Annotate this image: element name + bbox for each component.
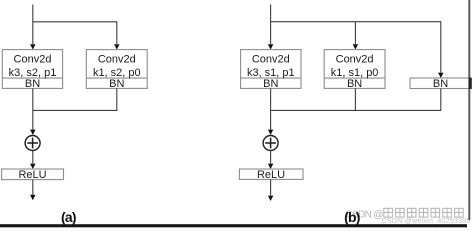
wire input stem (b) [270,5,272,45]
wire output (a) [32,180,34,195]
block BN shortcut (b-right) [410,78,470,89]
block ReLU (a) [2,169,64,180]
svg-text:ReLU: ReLU [257,169,285,181]
wire adder to ReLU (a) [32,151,34,164]
block Conv2d k1,s1,p0 + BN (b-middle) [324,50,385,89]
arrowhead into adder (b) [268,130,273,135]
separator line BN (a-right) [86,77,147,79]
arrowhead output (b) [268,196,273,201]
arrowhead into Conv2d k3,s1,p1 [268,44,273,49]
wire branch top (b) [271,22,441,73]
separator line BN (a-left) [2,77,62,79]
arrowhead into Conv2d k1,s2,p0 [114,44,119,49]
wire left column down to adder (a) [32,88,34,129]
block Conv2d k1,s2,p0 + BN (a-right) [86,50,147,89]
svg-text:ReLU: ReLU [18,169,46,181]
arrowhead into Conv2d k1,s1,p0 [353,44,358,49]
wire BN shortcut down (b) [440,89,442,111]
wire input stem (a) [32,5,34,45]
bottom rule [0,224,467,227]
svg-text:Conv2d: Conv2d [336,54,374,66]
block Conv2d k3,s2,p1 + BN (a-left) [2,50,62,89]
block Conv2d k3,s1,p1 + BN (b-left) [241,50,301,89]
arrowhead into ReLU (a) [30,164,35,169]
svg-text:BN: BN [347,78,362,90]
arrowhead output (a) [30,195,35,200]
wire merge horizontal (b) [271,109,442,111]
svg-text:Conv2d: Conv2d [252,54,290,66]
svg-text:BN: BN [109,78,124,90]
wire left column down to adder (b) [270,88,272,129]
wire branch to right column (a) [33,22,117,44]
svg-text:BN: BN [433,78,448,90]
svg-text:(b): (b) [344,209,360,225]
wire output (b) [270,179,272,195]
arrowhead into ReLU (b) [268,164,273,169]
dark joint BN box edge [469,78,472,89]
svg-text:Conv2d: Conv2d [14,54,52,66]
wire adder to ReLU (b) [270,151,272,164]
watermark CJK glyphs (simulated) [384,208,463,217]
arrowhead into Conv2d k3,s2,p1 [30,44,35,49]
svg-text:CSDN @weixin_40293399: CSDN @weixin_40293399 [382,218,471,225]
svg-text:Conv2d: Conv2d [98,54,136,66]
wire right column down (a) [116,88,118,110]
svg-text:BN: BN [25,78,40,90]
separator line BN (b-middle) [324,77,385,79]
wire merge horizontal (a) [33,109,118,111]
adder node (a) [25,136,40,151]
block ReLU (b) [239,169,303,179]
adder node (b) [263,136,278,151]
arrowhead into BN shortcut (b) [438,73,443,78]
svg-text:BN: BN [263,78,278,90]
arrowhead into adder (a) [30,130,35,135]
page edge vertical rule [468,0,470,220]
wire middle column down (b) [354,88,356,110]
separator line BN (b-left) [241,77,301,79]
wire branch drop middle (b) [354,22,356,44]
svg-text:(a): (a) [61,209,76,225]
